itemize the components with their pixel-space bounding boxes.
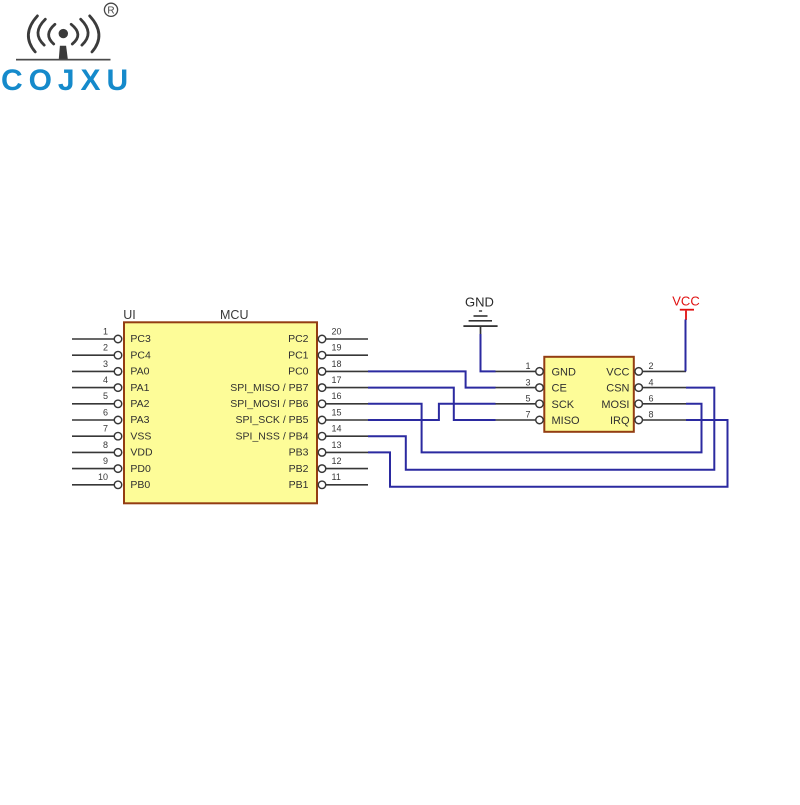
- svg-text:PB1: PB1: [289, 479, 309, 491]
- svg-text:VCC: VCC: [672, 294, 699, 309]
- svg-text:PB0: PB0: [130, 479, 150, 491]
- wire VCC net (vcc to module pin 2): [685, 320, 687, 372]
- svg-text:SCK: SCK: [552, 399, 575, 411]
- wire SPI_MISO to MISO: [368, 388, 496, 420]
- svg-text:7: 7: [103, 424, 108, 434]
- svg-text:R: R: [107, 5, 114, 16]
- svg-text:UI: UI: [123, 308, 136, 322]
- svg-text:VDD: VDD: [130, 447, 153, 459]
- mcu pin 13 (PB3): [289, 440, 368, 459]
- svg-text:1: 1: [525, 361, 530, 371]
- svg-text:13: 13: [332, 440, 342, 450]
- mcu pin 8 (VDD): [72, 440, 153, 459]
- module pin 4 (CSN): [606, 377, 686, 394]
- logo registered mark: [104, 3, 117, 16]
- mcu pin 2 (PC4): [72, 343, 151, 362]
- svg-text:6: 6: [649, 394, 654, 404]
- svg-text:PC4: PC4: [130, 349, 151, 361]
- mcu pin 5 (PA2): [72, 391, 150, 410]
- svg-text:1: 1: [103, 326, 108, 336]
- mcu U1 body: [124, 322, 317, 503]
- svg-text:PC1: PC1: [288, 349, 309, 361]
- svg-text:SPI_MOSI / PB6: SPI_MOSI / PB6: [230, 398, 308, 410]
- logo antenna mast: [59, 46, 68, 59]
- mcu pin 17 (SPI_MISO / PB7): [230, 375, 368, 394]
- mcu pin 7 (VSS): [72, 424, 151, 443]
- mcu pin 20 (PC2): [288, 326, 368, 345]
- svg-text:2: 2: [649, 361, 654, 371]
- svg-text:SPI_MISO / PB7: SPI_MISO / PB7: [230, 382, 308, 394]
- module pin 2 (VCC): [606, 361, 686, 378]
- module pin 3 (CE): [495, 377, 567, 394]
- svg-text:MCU: MCU: [220, 308, 248, 322]
- svg-text:PC0: PC0: [288, 366, 309, 378]
- svg-text:19: 19: [332, 343, 342, 353]
- svg-text:CE: CE: [552, 383, 567, 395]
- svg-text:SPI_NSS / PB4: SPI_NSS / PB4: [236, 430, 309, 442]
- svg-text:PC2: PC2: [288, 333, 309, 345]
- mcu pin 19 (PC1): [288, 343, 368, 362]
- svg-text:12: 12: [332, 456, 342, 466]
- mcu pin 6 (PA3): [72, 407, 150, 426]
- svg-text:IRQ: IRQ: [610, 415, 630, 427]
- svg-text:14: 14: [332, 424, 342, 434]
- svg-text:PA1: PA1: [130, 382, 149, 394]
- svg-text:COJXU: COJXU: [1, 64, 134, 97]
- svg-text:VSS: VSS: [130, 430, 151, 442]
- logo baseline: [16, 59, 111, 61]
- svg-text:PC3: PC3: [130, 333, 151, 345]
- logo antenna arcs: [28, 16, 99, 52]
- svg-text:17: 17: [332, 375, 342, 385]
- mcu pin 10 (PB0): [72, 472, 150, 491]
- mcu pin 9 (PD0): [72, 456, 151, 475]
- svg-text:18: 18: [332, 359, 342, 369]
- module pin 6 (MOSI): [601, 394, 686, 411]
- module pin 5 (SCK): [495, 394, 575, 411]
- svg-text:PA0: PA0: [130, 366, 149, 378]
- mcu pin 14 (SPI_NSS / PB4): [236, 424, 368, 443]
- svg-text:11: 11: [332, 472, 341, 482]
- svg-text:5: 5: [525, 394, 530, 404]
- svg-text:4: 4: [649, 377, 654, 387]
- svg-text:GND: GND: [465, 294, 494, 309]
- svg-text:6: 6: [103, 407, 108, 417]
- wire GND net (ground to module pin 1): [481, 334, 496, 371]
- svg-text:15: 15: [332, 407, 342, 417]
- svg-text:5: 5: [103, 391, 108, 401]
- svg-text:MISO: MISO: [552, 415, 581, 427]
- svg-text:PA3: PA3: [130, 414, 149, 426]
- svg-text:PB3: PB3: [289, 447, 309, 459]
- svg-text:7: 7: [525, 410, 530, 420]
- svg-text:PB2: PB2: [289, 463, 309, 475]
- mcu pin 18 (PC0): [288, 359, 368, 378]
- wire PC0 to CE: [368, 371, 496, 387]
- svg-text:9: 9: [103, 456, 108, 466]
- wire SPI_MOSI to MOSI: [368, 404, 702, 453]
- mcu pin 3 (PA0): [72, 359, 150, 378]
- svg-text:3: 3: [103, 359, 108, 369]
- mcu pin 15 (SPI_SCK / PB5): [236, 407, 368, 426]
- mcu pin 16 (SPI_MOSI / PB6): [230, 391, 368, 410]
- wire SPI_NSS to CSN: [368, 388, 714, 470]
- logo antenna dot: [59, 29, 68, 38]
- svg-text:3: 3: [525, 377, 530, 387]
- rf module U2 body: [544, 357, 634, 432]
- module pin 1 (GND): [495, 361, 576, 378]
- svg-text:PD0: PD0: [130, 463, 151, 475]
- svg-text:4: 4: [103, 375, 108, 385]
- mcu pin 12 (PB2): [289, 456, 368, 475]
- svg-text:SPI_SCK / PB5: SPI_SCK / PB5: [236, 414, 309, 426]
- module pin 7 (MISO): [495, 410, 580, 427]
- svg-text:8: 8: [649, 410, 654, 420]
- svg-text:PA2: PA2: [130, 398, 149, 410]
- svg-text:8: 8: [103, 440, 108, 450]
- vcc symbol: [672, 294, 699, 321]
- svg-text:10: 10: [98, 472, 108, 482]
- svg-text:MOSI: MOSI: [601, 399, 629, 411]
- module pin 8 (IRQ): [610, 410, 686, 427]
- svg-text:2: 2: [103, 343, 108, 353]
- svg-text:16: 16: [332, 391, 342, 401]
- mcu pin 1 (PC3): [72, 326, 151, 345]
- wire SPI_SCK to SCK: [368, 404, 496, 420]
- ground symbol: [463, 294, 497, 334]
- svg-text:VCC: VCC: [606, 366, 629, 378]
- svg-text:CSN: CSN: [606, 383, 629, 395]
- wire PB3 to IRQ: [368, 420, 728, 487]
- mcu pin 4 (PA1): [72, 375, 150, 394]
- mcu pin 11 (PB1): [289, 472, 368, 491]
- svg-text:GND: GND: [552, 366, 577, 378]
- svg-text:20: 20: [332, 326, 342, 336]
